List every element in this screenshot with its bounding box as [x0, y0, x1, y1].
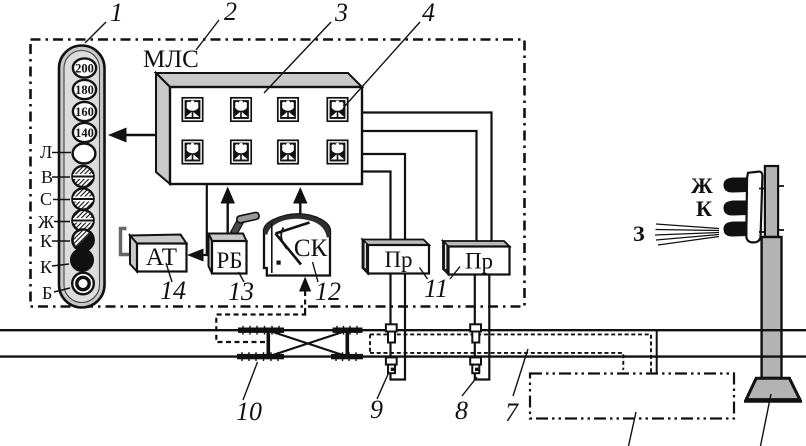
svg-text:4: 4 — [422, 0, 435, 27]
rail1 right bond — [333, 326, 363, 335]
РБ handle lever — [226, 220, 244, 245]
decoder block 3/4 (3D box) — [156, 73, 362, 184]
dash-dot-dot apparatus box 6 — [530, 374, 734, 419]
svg-text:13: 13 — [228, 277, 254, 306]
lamp cell row2 c2 — [231, 140, 251, 163]
svg-text:14: 14 — [160, 276, 186, 305]
lamp К (middle) — [723, 201, 747, 216]
svg-text:К: К — [40, 231, 53, 251]
dashed arrow track to СК — [304, 291, 306, 315]
svg-text:СК: СК — [294, 235, 328, 262]
svg-text:11: 11 — [424, 274, 448, 303]
receiver coil wires 8 (from right Пр) — [475, 275, 490, 380]
speed lamp 140 — [73, 123, 96, 142]
Пр receiver left (3D box) — [363, 240, 430, 274]
label 2 leader — [196, 20, 219, 50]
lamp К1 (hatch + black) — [72, 229, 93, 250]
label 12 leader — [313, 262, 319, 282]
antenna of АТ — [121, 229, 134, 255]
lamp cell row1 c2 — [231, 98, 251, 121]
lamp С (hatched) — [72, 188, 93, 209]
label 14 leader — [166, 263, 172, 282]
apparatus box leader — [629, 412, 637, 446]
coil 8 on rail2 — [470, 357, 481, 373]
dotted cable 7 lower run — [370, 353, 623, 370]
rail1 left bond — [238, 326, 284, 335]
lamp cell row1 c1 — [182, 98, 202, 121]
label 10 leader — [243, 362, 258, 400]
svg-text:180: 180 — [75, 83, 94, 97]
svg-text:200: 200 — [75, 61, 94, 75]
coil 8 on rail1 — [470, 324, 481, 342]
lamp Ж (top) — [723, 178, 747, 193]
label 11 leaders — [420, 268, 428, 280]
arrow СК to block — [299, 200, 301, 214]
svg-text:К: К — [696, 196, 712, 221]
coil 9 on rail1 — [386, 324, 397, 342]
svg-text:140: 140 — [75, 126, 94, 140]
lamp cell row1 c4 — [327, 98, 347, 121]
svg-text:12: 12 — [315, 277, 341, 306]
wire rails to apparatus — [656, 330, 658, 374]
Пр receiver right (3D box) — [443, 241, 510, 275]
svg-text:МЛС: МЛС — [143, 46, 199, 73]
signal mast base — [746, 378, 800, 399]
svg-text:1: 1 — [110, 0, 123, 27]
signal head backing plate — [746, 172, 762, 243]
svg-text:Б: Б — [42, 283, 52, 303]
label 8 leader — [462, 377, 477, 396]
svg-text:Пр: Пр — [465, 249, 493, 274]
cross bond 10: left vertical jumper — [266, 330, 270, 357]
rail2 left bond — [237, 352, 284, 361]
svg-text:9: 9 — [370, 395, 383, 424]
wire block to indicator with arrow — [124, 134, 156, 136]
wire — [362, 131, 477, 243]
svg-text:К: К — [40, 257, 53, 277]
signal mast pole — [762, 166, 782, 378]
label 7 leader — [513, 349, 528, 396]
lamp cell row2 c3 — [278, 140, 298, 163]
dotted cable 7 upper run — [370, 334, 651, 372]
lamp Б (ring) — [72, 273, 94, 295]
cross bond 10: right vertical jumper — [345, 330, 349, 357]
svg-text:3: 3 — [334, 0, 348, 27]
label 1 leader — [85, 22, 106, 43]
svg-text:7: 7 — [505, 398, 519, 427]
speed lamp 200 — [73, 58, 96, 77]
svg-text:Ж: Ж — [691, 173, 713, 198]
lamp cell row2 c4 — [327, 140, 347, 163]
wire — [362, 172, 391, 242]
svg-text:В: В — [41, 167, 53, 187]
label 3 leader — [264, 22, 331, 93]
cross bond 10: X diagonals — [268, 331, 347, 357]
signal mast leader — [761, 394, 772, 446]
svg-text:АТ: АТ — [146, 244, 177, 271]
svg-text:10: 10 — [236, 397, 262, 426]
svg-text:С: С — [40, 189, 52, 209]
wire block down to АТ with arrow — [203, 184, 207, 255]
svg-text:160: 160 — [75, 105, 94, 119]
svg-text:Пр: Пр — [384, 247, 412, 272]
lamp В (hatched) — [72, 166, 93, 187]
mounting brackets — [759, 188, 766, 190]
svg-text:Л: Л — [40, 142, 52, 162]
dashed path СК to track — [216, 313, 305, 342]
lamp cell row2 c1 — [182, 140, 202, 163]
svg-text:РБ: РБ — [217, 248, 243, 273]
СК speed sensor 12 (dome body) — [264, 214, 331, 275]
rail 2 — [0, 355, 806, 357]
dotted cable 7 left end — [369, 334, 371, 353]
arrow РБ to block — [226, 200, 228, 234]
svg-text:Ж: Ж — [38, 212, 55, 232]
wire block to Пр left pair — [362, 154, 405, 241]
lamp cell row1 c3 — [278, 98, 298, 121]
label 13 leader — [239, 272, 245, 282]
РБ unit 13 (3D box) — [209, 234, 247, 274]
rail 1 — [0, 329, 806, 331]
АТ unit 14 (3D box) — [130, 235, 187, 272]
receiver coil wires 9 (from left Пр) — [391, 274, 406, 380]
svg-text:2: 2 — [224, 0, 237, 26]
lamp З (bottom) — [723, 222, 747, 237]
locomotive signal indicator 1 (column) — [59, 46, 105, 308]
dash-dot boundary box 2 (on-board equipment) — [31, 40, 525, 307]
lamp Ж (dense hatched) — [72, 210, 93, 231]
speed lamp 180 — [73, 80, 96, 99]
label 4 leader — [344, 22, 420, 107]
speed lamp 160 — [73, 102, 96, 121]
label 9 leader — [377, 372, 389, 399]
lamp Л (white) — [73, 144, 96, 164]
wire block to Пр right pair — [362, 113, 492, 244]
svg-text:З: З — [633, 221, 645, 246]
coil 9 on rail2 — [386, 357, 397, 373]
lamp К2 (black) — [71, 249, 93, 271]
green light rays — [655, 224, 719, 245]
svg-text:8: 8 — [455, 396, 468, 425]
rail2 right bond — [331, 352, 363, 361]
